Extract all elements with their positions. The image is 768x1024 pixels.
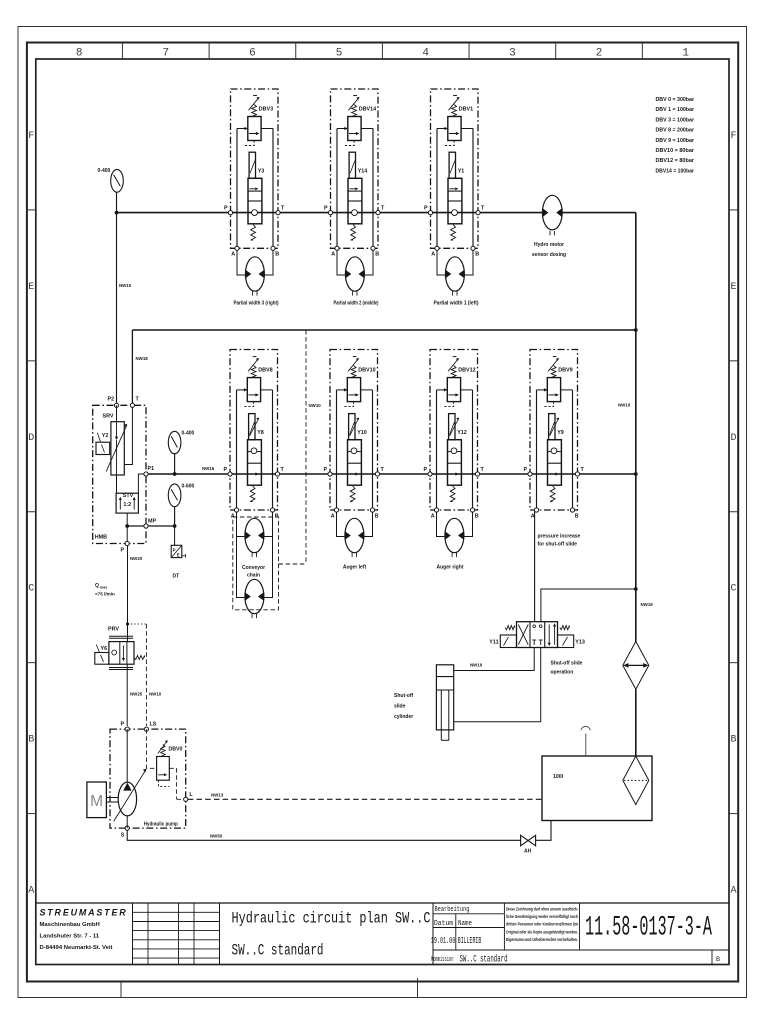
svg-text:DT: DT: [173, 574, 180, 580]
svg-text:D: D: [28, 433, 34, 444]
shaft motor-pump: [106, 798, 118, 803]
svg-text:A: A: [28, 886, 34, 897]
svg-text:4: 4: [422, 48, 429, 60]
valve body Y8: [248, 440, 262, 486]
conveyor chain motor 1: [245, 518, 264, 557]
wire: right branch to port B (DBV8): [272, 390, 274, 510]
svg-text:19.01.06: 19.01.06: [431, 935, 456, 946]
label STV 1:2: [123, 493, 134, 508]
conveyor chain motor 2: [245, 579, 264, 618]
wire: shut-off feed line: [541, 589, 636, 622]
proportional valve solenoid Y1: [449, 152, 455, 178]
label Q max 75 l/min: [95, 583, 115, 597]
svg-text:1:2: 1:2: [123, 502, 131, 508]
wire: left branch to port A (DBV14): [336, 129, 338, 249]
wire: port A to hydraulic motor Partial width 2 (middle): [337, 250, 345, 275]
pressure gauge 0-400 (at P1): [168, 431, 181, 453]
spring right of valve: [560, 626, 570, 630]
pump unit frame: [110, 729, 186, 828]
left ruler row letters: [28, 131, 34, 897]
valve spring Y9: [550, 486, 555, 502]
svg-text:B: B: [375, 252, 379, 258]
pressure gauge 0-400 (top left): [111, 169, 124, 192]
svg-text:P: P: [424, 467, 428, 473]
wire: branch to conveyor motor 1: [237, 536, 245, 538]
svg-text:DBV1: DBV1: [459, 107, 473, 113]
svg-text:DBV3: DBV3: [259, 107, 273, 113]
svg-text:NW50: NW50: [210, 834, 223, 839]
wire: right branch to port B (DBV3): [272, 129, 274, 249]
svg-text:P: P: [224, 467, 228, 473]
svg-text:NW10: NW10: [618, 403, 631, 408]
port P (block bottom): [125, 541, 129, 545]
wire: pump to S port: [126, 816, 128, 828]
wire: leakage line L dashed NW13: [188, 798, 542, 800]
wire: left branch to port A (DBV10): [336, 390, 338, 510]
svg-text:Name: Name: [458, 920, 472, 928]
svg-text:E: E: [177, 552, 180, 557]
port S: [125, 826, 129, 830]
wire: right branch to port B (DBV9): [572, 390, 574, 510]
pressure relief valve DBV0: [157, 740, 170, 780]
svg-text:P2: P2: [108, 397, 115, 403]
wire: gauge 0-600 to MP line: [174, 507, 176, 526]
wire: P port to pump: [126, 729, 128, 782]
valve spring Y3: [251, 225, 256, 241]
svg-text:chain: chain: [247, 573, 260, 579]
svg-text:S: S: [121, 833, 125, 839]
svg-text:Conveyor: Conveyor: [242, 565, 265, 571]
svg-text:0-400: 0-400: [98, 168, 111, 174]
svg-text:=75 l/min: =75 l/min: [95, 592, 115, 597]
port P of DBV1: [428, 211, 432, 215]
pressure switch P/E: [171, 545, 185, 557]
svg-text:DBV12 = 80bar: DBV12 = 80bar: [656, 158, 695, 164]
port P of DBV12: [428, 472, 432, 476]
node: junction gauge line / top bus: [115, 211, 119, 215]
svg-text:Auger left: Auger left: [343, 565, 367, 571]
wire: gauge line to port P2: [116, 192, 118, 405]
valve body Y12: [448, 440, 462, 486]
valve spring Y1: [451, 225, 456, 241]
svg-text:2: 2: [596, 48, 603, 60]
svg-text:NW10: NW10: [149, 692, 162, 697]
svg-text:F: F: [730, 131, 736, 142]
svg-text:Diese Zeichnung darf ohne unse: Diese Zeichnung darf ohne unsere ausdrüc…: [506, 907, 578, 912]
hydraulic motor Partial width 1 (left): [445, 257, 464, 296]
port T of DBV8: [275, 472, 279, 476]
svg-text:6: 6: [249, 48, 256, 60]
port T: [130, 403, 134, 407]
wire: T port down to SRV: [124, 407, 132, 464]
inner drawing frame: [36, 59, 729, 965]
svg-text:Shut-off: Shut-off: [394, 693, 413, 699]
svg-text:sensor dosing: sensor dosing: [532, 252, 566, 258]
node: MP line junction: [125, 524, 129, 528]
legend: DBV pressure settings: [656, 97, 695, 174]
shut-off slide cylinder: [436, 665, 453, 741]
wire: DBV0 dashed outlet to L: [169, 768, 176, 799]
relief valve DBV8: [237, 357, 273, 407]
svg-text:for shut-off slide: for shut-off slide: [538, 542, 578, 548]
wire: suction line S NW50: [127, 830, 520, 840]
valve spring Y14: [351, 225, 356, 241]
svg-text:7: 7: [162, 48, 169, 60]
valve body Y9: [548, 440, 562, 486]
node: gauge junction on P1 bus: [173, 472, 177, 476]
oil tank 100l: [542, 756, 652, 821]
svg-text:DBV 8 = 200bar: DBV 8 = 200bar: [656, 128, 695, 134]
svg-text:P1: P1: [148, 466, 155, 472]
label pressure increase for shut-off slide: [538, 534, 581, 548]
svg-text:D: D: [730, 433, 736, 444]
port T of DBV9: [575, 472, 579, 476]
port P of DBV8: [228, 472, 232, 476]
svg-text:DBV14: DBV14: [359, 107, 376, 113]
relief valve DBV9: [537, 357, 573, 407]
svg-text:B: B: [475, 513, 479, 519]
svg-text:Shut-off slide: Shut-off slide: [551, 661, 583, 667]
wire: right branch to port B (DBV14): [372, 129, 374, 249]
svg-text:Kommission: Kommission: [431, 956, 454, 964]
wire: port B to hydraulic motor Partial width 1 (left): [465, 250, 473, 275]
proportional valve solenoid Y12: [449, 414, 460, 440]
wire: MP measuring line: [127, 525, 174, 527]
svg-text:NW25: NW25: [130, 692, 143, 697]
wire: main pressure bus line (top): [117, 212, 636, 214]
valve body Y3: [248, 178, 262, 224]
valve spring Y12: [450, 486, 455, 502]
hydro motor sensor dosing: [542, 195, 562, 235]
port A of DBV3: [235, 246, 239, 250]
svg-text:Y6: Y6: [101, 646, 108, 652]
wire: port A to hydraulic motor Partial width 3 (right): [237, 250, 245, 275]
svg-text:DBV 9 = 100bar: DBV 9 = 100bar: [656, 138, 695, 144]
svg-text:P: P: [524, 467, 528, 473]
svg-text:P: P: [173, 548, 176, 553]
German copyright note: [506, 907, 578, 942]
bottom margin fold marks: [121, 978, 418, 997]
svg-text:B: B: [475, 252, 479, 258]
title block outline: [36, 902, 729, 904]
wire: right branch to port B (DBV10): [372, 390, 374, 510]
svg-text:dritten Personen oder Konkurre: dritten Personen oder Konkurrenzfirmen (…: [506, 922, 578, 927]
svg-text:A: A: [730, 886, 736, 897]
proportional valve solenoid Y14: [349, 152, 355, 178]
wire: dotted pilot from P line: [128, 623, 147, 625]
relief valve DBV12: [437, 357, 473, 407]
port A of DBV1: [435, 246, 439, 250]
port B of DBV8: [270, 508, 274, 512]
proportional reducing valve PRV: [109, 636, 145, 669]
wire: cooler to filter: [635, 689, 637, 756]
svg-text:Y1: Y1: [458, 169, 465, 175]
valve group frame DBV10: [330, 350, 378, 511]
node: return line / second bus junction: [634, 328, 638, 332]
svg-text:STV: STV: [123, 493, 134, 499]
wire: DBV0 dashed drain hook: [159, 780, 170, 786]
port T of DBV10: [375, 472, 379, 476]
svg-text:P: P: [324, 467, 328, 473]
svg-text:Y13: Y13: [575, 640, 585, 646]
port T of DBV3: [276, 211, 280, 215]
wire: STV to P1: [138, 474, 144, 493]
svg-text:A: A: [231, 252, 235, 258]
wire: port A to conveyor motors: [237, 512, 245, 598]
svg-text:Y12: Y12: [457, 430, 467, 436]
valve body Y14: [348, 178, 362, 224]
svg-text:NW19: NW19: [641, 602, 654, 607]
electric motor M: [87, 782, 107, 818]
port P1: [144, 472, 148, 476]
wire: left branch to port A (DBV12): [436, 390, 438, 510]
wire: valve to cylinder top port: [454, 648, 535, 671]
svg-text:cylinder: cylinder: [394, 714, 413, 720]
solenoid Y2: [96, 433, 110, 455]
info box frame: [433, 903, 729, 965]
port B of DBV9: [570, 508, 574, 512]
solenoid Y6 of PRV: [95, 645, 109, 665]
svg-text:Y8: Y8: [257, 430, 264, 436]
svg-text:A: A: [331, 252, 335, 258]
relief valve DBV10: [337, 357, 373, 407]
svg-text:P: P: [324, 206, 328, 212]
port P2: [114, 403, 118, 407]
wire: STV down to P: [126, 513, 128, 543]
port B of DBV3: [271, 246, 275, 250]
svg-text:0-600: 0-600: [182, 484, 195, 490]
port P of DBV10: [328, 472, 332, 476]
svg-text:Bearbeitung: Bearbeitung: [435, 906, 470, 914]
company address: [40, 922, 113, 951]
label Conveyor chain: [242, 565, 265, 579]
svg-text:SRV: SRV: [103, 414, 114, 420]
svg-text:100l: 100l: [553, 774, 564, 780]
left ruler row tick lines: [27, 210, 36, 814]
svg-text:Auger right: Auger right: [437, 565, 464, 571]
wire: left branch to port A (DBV9): [536, 390, 538, 510]
svg-text:STREUMASTER: STREUMASTER: [40, 908, 128, 918]
svg-text:E: E: [28, 282, 34, 293]
svg-text:liche Genehmigung weder vervie: liche Genehmigung weder vervielfältigt n…: [506, 914, 578, 919]
wire: port A to hydraulic motor Auger right: [437, 512, 445, 537]
svg-text:PRV: PRV: [108, 627, 119, 633]
svg-text:Eigentums-und Urheberrechte vo: Eigentums-und Urheberrechte vorbehalten.: [506, 937, 578, 942]
svg-text:DBV12: DBV12: [458, 368, 475, 374]
svg-text:NW18: NW18: [136, 356, 149, 361]
svg-text:DBV14 = 100bar: DBV14 = 100bar: [656, 168, 695, 174]
revision grid lines: [133, 903, 220, 965]
svg-text:Partial width 2 (middle): Partial width 2 (middle): [334, 301, 379, 307]
valve group frame DBV9: [530, 350, 578, 511]
relief valve DBV1: [437, 96, 473, 146]
port P pump: [125, 727, 129, 731]
proportional relief valve SRV: [106, 405, 127, 475]
solenoid Y13: [558, 635, 574, 648]
spring left of valve: [505, 626, 515, 630]
node: return line / P1 bus junction: [634, 472, 638, 476]
label Hydro motor sensor dosing: [532, 242, 566, 258]
svg-text:DBV 3 = 100bar: DBV 3 = 100bar: [656, 117, 695, 123]
wire: DBV9 port A down to shut-off valve: [534, 512, 536, 622]
port MP: [144, 524, 148, 528]
wire: valve to cylinder bottom port: [454, 648, 541, 722]
port P of DBV14: [328, 211, 332, 215]
cooler diamond with flow arrow: [623, 641, 649, 689]
valve spring Y8: [250, 486, 255, 502]
wire: port B to conveyor motors: [264, 512, 272, 598]
svg-text:Y9: Y9: [557, 430, 564, 436]
svg-text:F: F: [28, 131, 34, 142]
svg-text:HMB: HMB: [95, 535, 107, 541]
svg-text:B: B: [275, 252, 279, 258]
svg-text:P: P: [224, 206, 228, 212]
directional valve Y11/Y13 body: [517, 622, 558, 648]
valve body Y10: [348, 440, 362, 486]
port B of DBV14: [371, 246, 375, 250]
svg-text:M: M: [90, 793, 103, 810]
svg-text:Partial width 1 (left): Partial width 1 (left): [434, 301, 479, 307]
svg-text:AH: AH: [524, 849, 532, 855]
svg-text:Y10: Y10: [357, 430, 367, 436]
valve group frame DBV3: [231, 89, 279, 248]
pressure gauge 0-600: [168, 484, 181, 507]
svg-text:NW10: NW10: [309, 403, 322, 408]
svg-text:A: A: [331, 513, 335, 519]
node: return line / shut-off line junction: [634, 587, 638, 591]
svg-text:NW13: NW13: [211, 793, 224, 798]
svg-text:operation: operation: [551, 670, 574, 676]
svg-text:DBV 0 = 300bar: DBV 0 = 300bar: [656, 97, 695, 103]
port B of DBV1: [471, 246, 475, 250]
svg-text:5: 5: [336, 48, 343, 60]
svg-text:DBV0: DBV0: [169, 747, 183, 753]
hydraulic motor Auger right: [445, 518, 464, 557]
wire: port B to hydraulic motor Partial width 2 (middle): [365, 250, 373, 275]
svg-text:DBV8: DBV8: [258, 368, 272, 374]
svg-text:max: max: [100, 586, 107, 590]
variable displacement pump: [114, 769, 147, 822]
svg-text:DBV 1 = 100bar: DBV 1 = 100bar: [656, 107, 695, 113]
wire: P1 pressure bus (second row): [146, 473, 636, 475]
svg-text:3: 3: [509, 48, 516, 60]
wire: T port riser to return bus: [131, 330, 133, 404]
port B of DBV10: [370, 508, 374, 512]
svg-text:Hydraulic circuit plan SW..C: Hydraulic circuit plan SW..C: [232, 910, 431, 928]
valve body Y1: [448, 178, 462, 224]
wire: left branch to port A (DBV8): [236, 390, 238, 510]
svg-text:Y14: Y14: [358, 169, 368, 175]
wire: LS dashed inside pump frame: [146, 729, 156, 768]
svg-text:SW..C standard: SW..C standard: [232, 942, 324, 960]
svg-text:NW16: NW16: [202, 466, 215, 471]
svg-text:Landshuter Str. 7 - 11: Landshuter Str. 7 - 11: [40, 934, 100, 940]
svg-text:1: 1: [682, 48, 689, 60]
control block frame HMB: [93, 405, 146, 543]
port A of DBV9: [534, 508, 538, 512]
svg-text:Original oder als Kopie ausgeh: Original oder als Kopie ausgehändigt wer…: [506, 929, 578, 934]
svg-text:SW..C standard: SW..C standard: [460, 954, 508, 966]
right ruler row letters: [730, 131, 736, 897]
proportional valve solenoid Y8: [249, 414, 260, 440]
node: MP junction: [173, 524, 177, 528]
wire: dashed drain link conveyor: [279, 563, 307, 565]
svg-text:P: P: [424, 206, 428, 212]
svg-text:slide: slide: [394, 704, 406, 710]
valve group frame DBV14: [331, 89, 379, 248]
valve spring Y10: [350, 486, 355, 502]
port A of DBV8: [234, 508, 238, 512]
svg-text:0-400: 0-400: [182, 431, 195, 437]
wire: left branch to port A (DBV1): [436, 129, 438, 249]
port T of DBV14: [376, 211, 380, 215]
svg-text:Maschinenbau GmbH: Maschinenbau GmbH: [40, 922, 100, 928]
svg-text:B: B: [275, 513, 279, 519]
svg-text:DBV10: DBV10: [358, 368, 375, 374]
proportional valve solenoid Y10: [349, 414, 360, 440]
svg-text:D-84494 Neumarkt-St. Veit: D-84494 Neumarkt-St. Veit: [40, 945, 113, 951]
svg-text:A: A: [431, 252, 435, 258]
wire: port B to hydraulic motor Auger left: [364, 512, 372, 537]
proportional valve solenoid Y3: [249, 152, 255, 178]
svg-text:NW10: NW10: [119, 283, 132, 288]
svg-text:A: A: [231, 513, 235, 519]
svg-text:Datum: Datum: [434, 920, 453, 928]
port LS: [144, 727, 148, 731]
svg-text:11.58-0137-3-A: 11.58-0137-3-A: [585, 913, 712, 944]
node: pilot tee on P line: [126, 622, 129, 625]
title block: company box: [132, 903, 134, 965]
svg-text:B: B: [730, 735, 736, 746]
wire: tank return bus from SRV T: [132, 329, 635, 331]
wire: right branch to port B (DBV12): [472, 390, 474, 510]
port P of DBV3: [228, 211, 232, 215]
svg-text:Q: Q: [95, 583, 99, 589]
shut-off valve AH: [521, 835, 536, 846]
svg-text:LS: LS: [150, 722, 157, 728]
svg-text:Y3: Y3: [258, 169, 265, 175]
svg-text:NW20: NW20: [130, 556, 143, 561]
svg-text:C: C: [28, 584, 34, 595]
valve group frame DBV1: [431, 89, 479, 248]
svg-text:DBV9: DBV9: [558, 368, 572, 374]
svg-text:BILLERIB: BILLERIB: [458, 935, 482, 946]
wire: port A to hydraulic motor Auger left: [337, 512, 345, 537]
svg-text:Hydro motor: Hydro motor: [534, 242, 564, 248]
svg-text:MP: MP: [148, 519, 156, 525]
dashed frame around conveyor motors: [233, 517, 279, 610]
relief valve DBV14: [337, 96, 373, 146]
svg-text:8: 8: [76, 48, 83, 60]
svg-text:B: B: [716, 956, 720, 963]
svg-text:Y2: Y2: [102, 433, 109, 439]
svg-text:E: E: [730, 282, 736, 293]
svg-text:Hydraulic pump: Hydraulic pump: [144, 822, 178, 828]
valve group frame DBV12: [430, 350, 478, 511]
solenoid Y11: [500, 635, 516, 648]
wire: SRV to STV: [116, 475, 118, 493]
wire: MP line to pressure switch: [174, 526, 176, 545]
hydraulic motor Partial width 2 (middle): [345, 257, 364, 296]
port B of DBV12: [470, 508, 474, 512]
wire: right branch to port B (DBV1): [472, 129, 474, 249]
wire: P line PRV to pump: [126, 664, 128, 726]
wire: dashed pilot line NW10 to LS: [145, 624, 147, 726]
port A of DBV10: [334, 508, 338, 512]
wire: left branch to port A (DBV3): [236, 129, 238, 249]
svg-text:A: A: [431, 513, 435, 519]
port T of DBV12: [475, 472, 479, 476]
